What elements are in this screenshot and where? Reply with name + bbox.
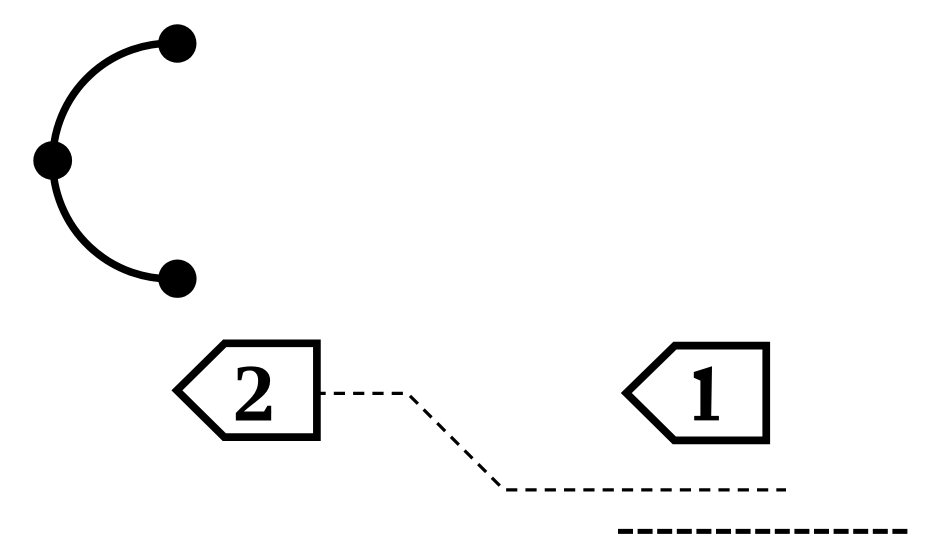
junction dot middle bbox=[33, 141, 72, 180]
thick dashed bus bbox=[618, 529, 908, 534]
flag 1 outline bbox=[626, 346, 766, 441]
dashed wire from flag 2 bbox=[315, 393, 787, 490]
wire arc bbox=[53, 43, 178, 279]
junction dot top bbox=[158, 24, 196, 62]
svg-text:2: 2 bbox=[232, 349, 275, 439]
flag 1 label "1" bbox=[694, 366, 719, 420]
flag 2 label "2" tail serif bbox=[264, 406, 272, 413]
flag 2 outline bbox=[177, 343, 317, 437]
junction dot bottom bbox=[158, 260, 196, 298]
